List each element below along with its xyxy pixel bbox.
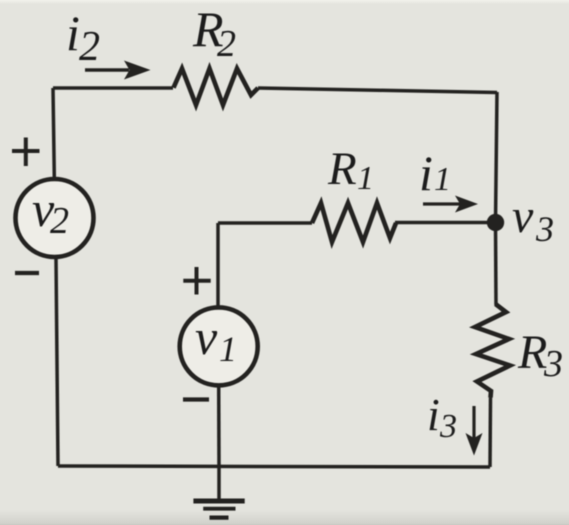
svg-text:R: R [327,143,357,195]
wire: middle horizontal from R1 to node v3 [395,221,496,225]
label R2 [192,1,236,65]
wire: top horizontal from R2 to top-right corner [258,88,497,93]
current arrow i2 [85,61,151,80]
svg-text:3: 3 [535,209,554,249]
resistor R1 [312,203,396,242]
svg-text:3: 3 [439,408,457,445]
wire: middle vertical from R1 wire corner down to v1 top [216,223,220,306]
label v3 [512,190,554,249]
svg-text:R: R [517,326,547,379]
svg-text:1: 1 [357,160,374,197]
polarity minus of v2 [15,271,39,275]
svg-text:1: 1 [434,161,451,198]
wire: right vertical from R3 to bottom-right corner [488,398,492,468]
label R3 [517,326,563,385]
wire: from v1 bottom down to bottom wire [217,387,221,466]
svg-text:1: 1 [219,329,237,369]
svg-text:i: i [419,145,433,201]
wire: left vertical from top corner to v2 top [53,88,54,177]
current arrow i1 [423,196,478,213]
resistor R3 [475,304,510,398]
svg-text:i: i [427,389,440,440]
svg-text:v: v [195,309,218,365]
wire: right vertical from node v3 to R3 [494,223,498,306]
label i3 [427,389,457,445]
wire: bottom horizontal [58,466,490,467]
polarity minus of v1 [183,397,209,401]
svg-text:i: i [66,5,80,61]
wire: right vertical from top corner to node v3 [496,92,498,223]
wire: middle horizontal from corner to R1 [218,221,312,225]
wire: left vertical from v2 bottom to bottom-left corner [56,259,58,466]
label v1 inside source [195,309,237,369]
voltage source v2 [16,179,94,257]
svg-text:v: v [512,190,534,243]
svg-text:2: 2 [217,23,236,65]
label v2 inside source [32,181,69,242]
label i2 [66,5,100,70]
svg-text:3: 3 [543,343,563,385]
polarity plus of v1 [183,267,210,295]
label i1 [419,145,451,201]
node v3 junction dot [487,214,504,231]
wire: top-left horizontal from v2 to R2 [53,86,173,90]
current arrow i3 [466,406,483,456]
ground [193,466,244,518]
label R1 [327,143,374,197]
voltage source v1 [180,307,258,385]
svg-text:2: 2 [79,24,100,70]
svg-text:2: 2 [50,200,69,242]
polarity plus of v2 [12,138,40,167]
resistor R2 [174,69,259,106]
